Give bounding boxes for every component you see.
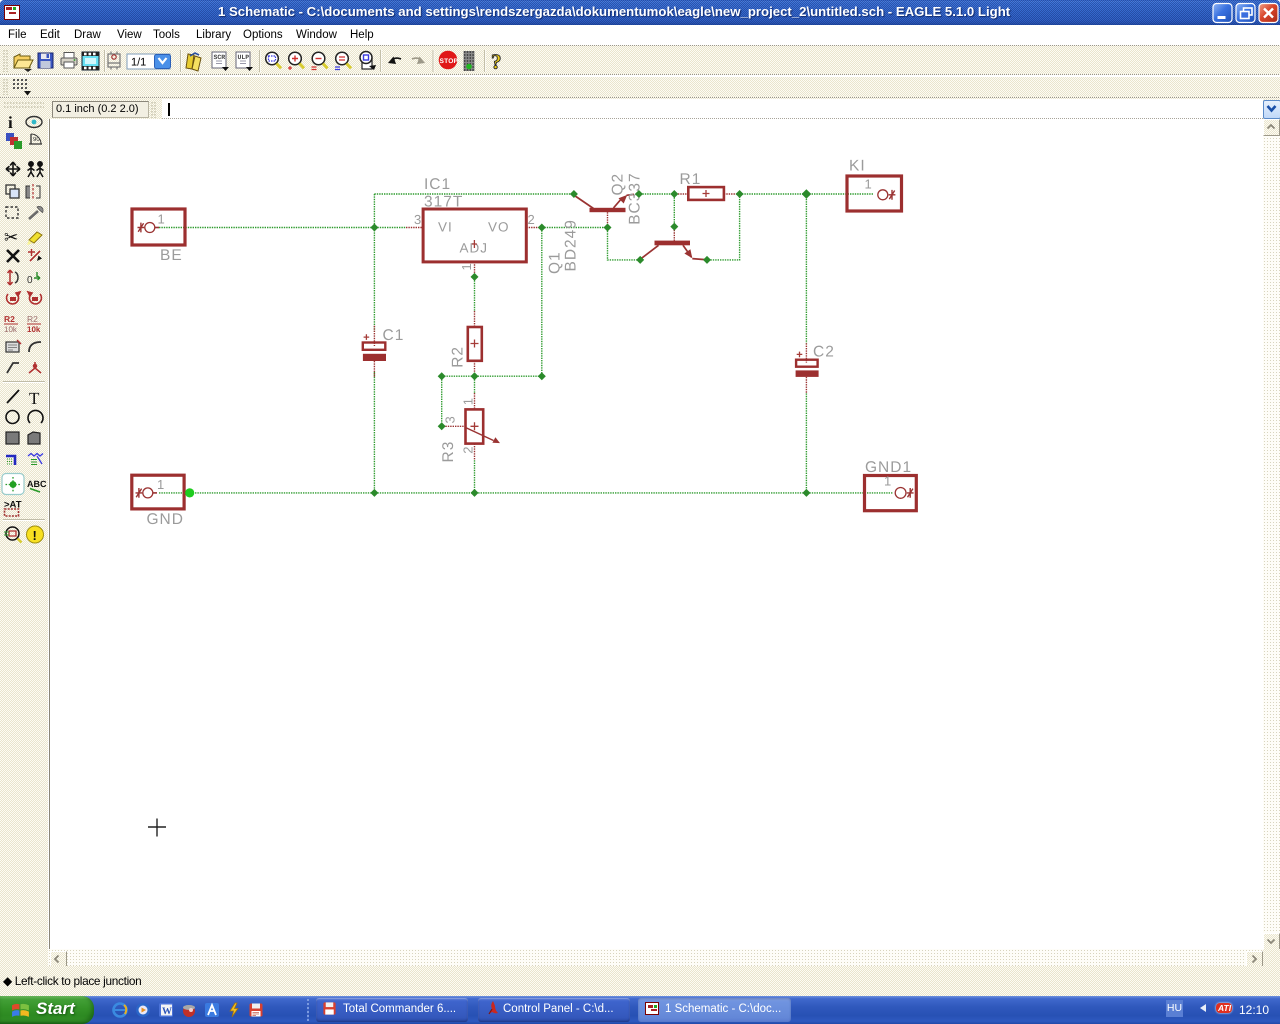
port GND1 (865, 459, 917, 511)
task buttons (316, 998, 468, 1022)
polygon tool (28, 432, 40, 444)
grid icon row2 (0, 76, 60, 98)
ULP icon (236, 52, 253, 71)
traffic light icon (464, 51, 475, 71)
capacitor C2 (796, 344, 835, 377)
wire R3 bottom to GND rail (474, 460, 476, 493)
wire tool (7, 390, 19, 403)
port GND (132, 475, 184, 528)
zoom fit icon (266, 52, 281, 68)
junction R3 wiper node (438, 422, 446, 430)
crosshair cursor (148, 819, 166, 837)
pin stub C1 bottom (373, 361, 375, 377)
quick launch icons (0, 0, 1280, 1)
svg-text:GND: GND (147, 511, 184, 528)
wire input vertical rail x374 upper (373, 194, 375, 332)
smash tool (6, 340, 21, 352)
pin stub R3 wiper (443, 425, 466, 427)
attribute tool (4, 500, 22, 517)
svg-text:3: 3 (443, 416, 458, 423)
windows flag (11, 1001, 31, 1019)
wire R1 right to KI (740, 193, 874, 195)
svg-text:1: 1 (459, 263, 474, 270)
svg-text:Q2: Q2 (610, 173, 627, 196)
junction R1 right node (736, 190, 744, 198)
pin stub R2 top (474, 311, 476, 327)
transistor Q1 BD249 (547, 194, 635, 274)
svg-text:2: 2 (460, 447, 475, 454)
replace tool (27, 272, 40, 286)
value tool (27, 314, 41, 334)
wire KI rail down to C2 and GND1 rail (805, 194, 807, 493)
pin stub IC1 VI (406, 227, 423, 229)
junction Q2 emitter node (703, 256, 711, 264)
junction Q1 base node (604, 224, 612, 232)
wire ADJ to R2 (474, 278, 476, 311)
wire Q2 base riser (673, 195, 675, 226)
svg-text:R2: R2 (450, 346, 467, 368)
svg-text:R3: R3 (440, 441, 457, 463)
svg-text:GND1: GND1 (865, 459, 912, 476)
save icon (38, 53, 53, 68)
label tool (27, 479, 47, 492)
vertical scrollbar (1263, 119, 1280, 949)
pin stub R1 right (724, 193, 739, 195)
board icon (108, 52, 120, 70)
zoom redraw icon (360, 52, 376, 71)
miter tool (29, 342, 41, 352)
split tool (29, 362, 41, 373)
pin stub C1 top (373, 326, 375, 346)
junction Q1 collector (570, 190, 578, 198)
svg-text:C1: C1 (383, 327, 405, 344)
mirror tool (26, 184, 40, 200)
move tool (6, 162, 20, 176)
toolbar gripper (4, 50, 7, 72)
wire top rail y194 to Q1 collector (374, 193, 572, 195)
junction R2 bottom (471, 372, 479, 380)
junction Q1 emitter (635, 190, 643, 198)
zoom select icon (335, 52, 351, 69)
svg-text:W: W (162, 1006, 172, 1017)
net tool (28, 454, 43, 465)
pin stub R1 left (676, 193, 689, 195)
copy tool (6, 185, 19, 198)
undo icon (388, 57, 401, 65)
transistor Q2 BC337 (610, 172, 706, 259)
stretch tool (8, 270, 19, 285)
svg-text:C2: C2 (813, 344, 835, 361)
rect tool (6, 432, 19, 444)
svg-text:R1: R1 (680, 171, 702, 188)
port KI (847, 158, 902, 212)
svg-text:BE: BE (160, 247, 183, 264)
zoom out icon (312, 52, 328, 69)
toolbar row 1 (0, 46, 1280, 75)
junction VO node (538, 224, 546, 232)
junction Q2 base node (670, 223, 678, 231)
pin stub R2 bottom (474, 361, 476, 376)
ql separator (307, 999, 309, 1021)
wire Q2 emitter to x739 riser (708, 195, 740, 260)
erc tool (3, 519, 45, 521)
miter2 tool (7, 363, 19, 373)
display layers tool (6, 133, 22, 149)
redo icon (412, 57, 425, 65)
bus tool (6, 456, 15, 465)
left tool palette (0, 98, 48, 948)
command gripper (148, 99, 162, 121)
junction tool pressed (2, 474, 24, 495)
palette gripper (4, 103, 44, 107)
zoom in icon (288, 52, 304, 70)
svg-text:1: 1 (158, 212, 165, 227)
svg-text:2: 2 (528, 212, 535, 227)
potentiometer R3 (440, 398, 500, 462)
pin stub Q1 base (607, 212, 609, 226)
toolbar row 2 (0, 77, 1280, 97)
command input (162, 99, 1263, 119)
op-amp/regulator IC1 317T (414, 176, 535, 271)
capacitor C1 (363, 327, 405, 361)
horizontal scrollbar (48, 949, 1263, 966)
resistor R1 (680, 171, 724, 200)
separator (3, 381, 45, 383)
wire VO to Q1 base (542, 227, 607, 229)
delete tool (7, 250, 19, 262)
pin stub IC1 VO (526, 227, 541, 229)
junction GND rail highlighted (185, 488, 194, 497)
pin stub C2 top (805, 343, 807, 363)
resistor R2 (450, 327, 482, 368)
junction Q2 collector node (636, 256, 644, 264)
separators (105, 50, 485, 72)
pin stub Q2 base (673, 228, 675, 241)
menu bar (0, 25, 1280, 46)
system tray (1160, 996, 1280, 1024)
errors tool (27, 526, 44, 543)
wire Q1 base down and across to Q2 collector (608, 229, 640, 260)
circle tool (6, 411, 19, 424)
print icon (61, 53, 77, 69)
open folder icon (14, 54, 33, 72)
svg-text:1: 1 (460, 398, 475, 405)
mark tool (29, 134, 42, 144)
start button (0, 996, 94, 1024)
svg-text:KI: KI (849, 158, 866, 175)
canvas (49, 119, 1264, 949)
svg-text:1: 1 (157, 477, 164, 492)
title bar (0, 0, 1280, 25)
paste tool (27, 232, 42, 245)
pin stub R3 bottom (474, 444, 476, 461)
junction R1 left node (670, 190, 678, 198)
svg-text:3: 3 (414, 212, 421, 227)
name tool (4, 314, 18, 334)
combo drop button (1263, 100, 1280, 119)
svg-text:VI: VI (438, 220, 453, 235)
junction at BE-IC1 rail (370, 224, 378, 232)
svg-text:Q1: Q1 (547, 251, 564, 274)
pinswap tool (28, 249, 42, 261)
sheet combo (127, 54, 171, 69)
window buttons (1210, 2, 1280, 24)
pin stub R3 top (474, 393, 476, 409)
svg-text:1: 1 (865, 177, 872, 192)
wire BE to IC1 VI (159, 227, 406, 229)
port BE (132, 209, 185, 264)
junction GND rail at input (370, 489, 378, 497)
show tool (eye) (26, 117, 42, 128)
wire Q1 emitter to R1 left (640, 193, 674, 195)
wire x441 down to R3 wiper (441, 377, 443, 426)
junction GND rail at C2 (802, 489, 810, 497)
wire x541 down to R2 row (541, 228, 543, 376)
svg-text:IC1: IC1 (424, 176, 451, 193)
SCR script icon (212, 52, 229, 71)
CAM processor icon (82, 52, 99, 70)
pin stub C2 bottom (805, 377, 807, 394)
select group tool (6, 207, 18, 218)
wire input vertical rail x374 lower (373, 372, 375, 493)
status bar (0, 966, 1280, 996)
wire GND rail (159, 492, 893, 494)
svg-text:BC337: BC337 (627, 172, 644, 224)
junction ADJ node (471, 273, 479, 281)
taskbar (0, 996, 1280, 1024)
stop icon (439, 51, 459, 70)
command row (0, 98, 1280, 119)
coordinate display (52, 101, 149, 118)
junction R2 row right (538, 372, 546, 380)
library icon (186, 53, 201, 71)
junction GND rail at R3 (471, 489, 479, 497)
arc tool (28, 410, 43, 423)
wire R2 bottom row y376 (442, 375, 542, 377)
svg-text:VO: VO (488, 220, 510, 235)
svg-text:317T: 317T (424, 194, 463, 211)
junction KI rail node (802, 189, 812, 199)
svg-text:BD249: BD249 (563, 219, 580, 271)
junction R2 bottom left (438, 372, 446, 380)
rotate tool (7, 292, 20, 304)
pin stub IC1 ADJ (474, 262, 476, 276)
change tool (wrench) (29, 206, 43, 219)
group tool (28, 162, 44, 177)
wire R3 top pin (474, 377, 476, 393)
